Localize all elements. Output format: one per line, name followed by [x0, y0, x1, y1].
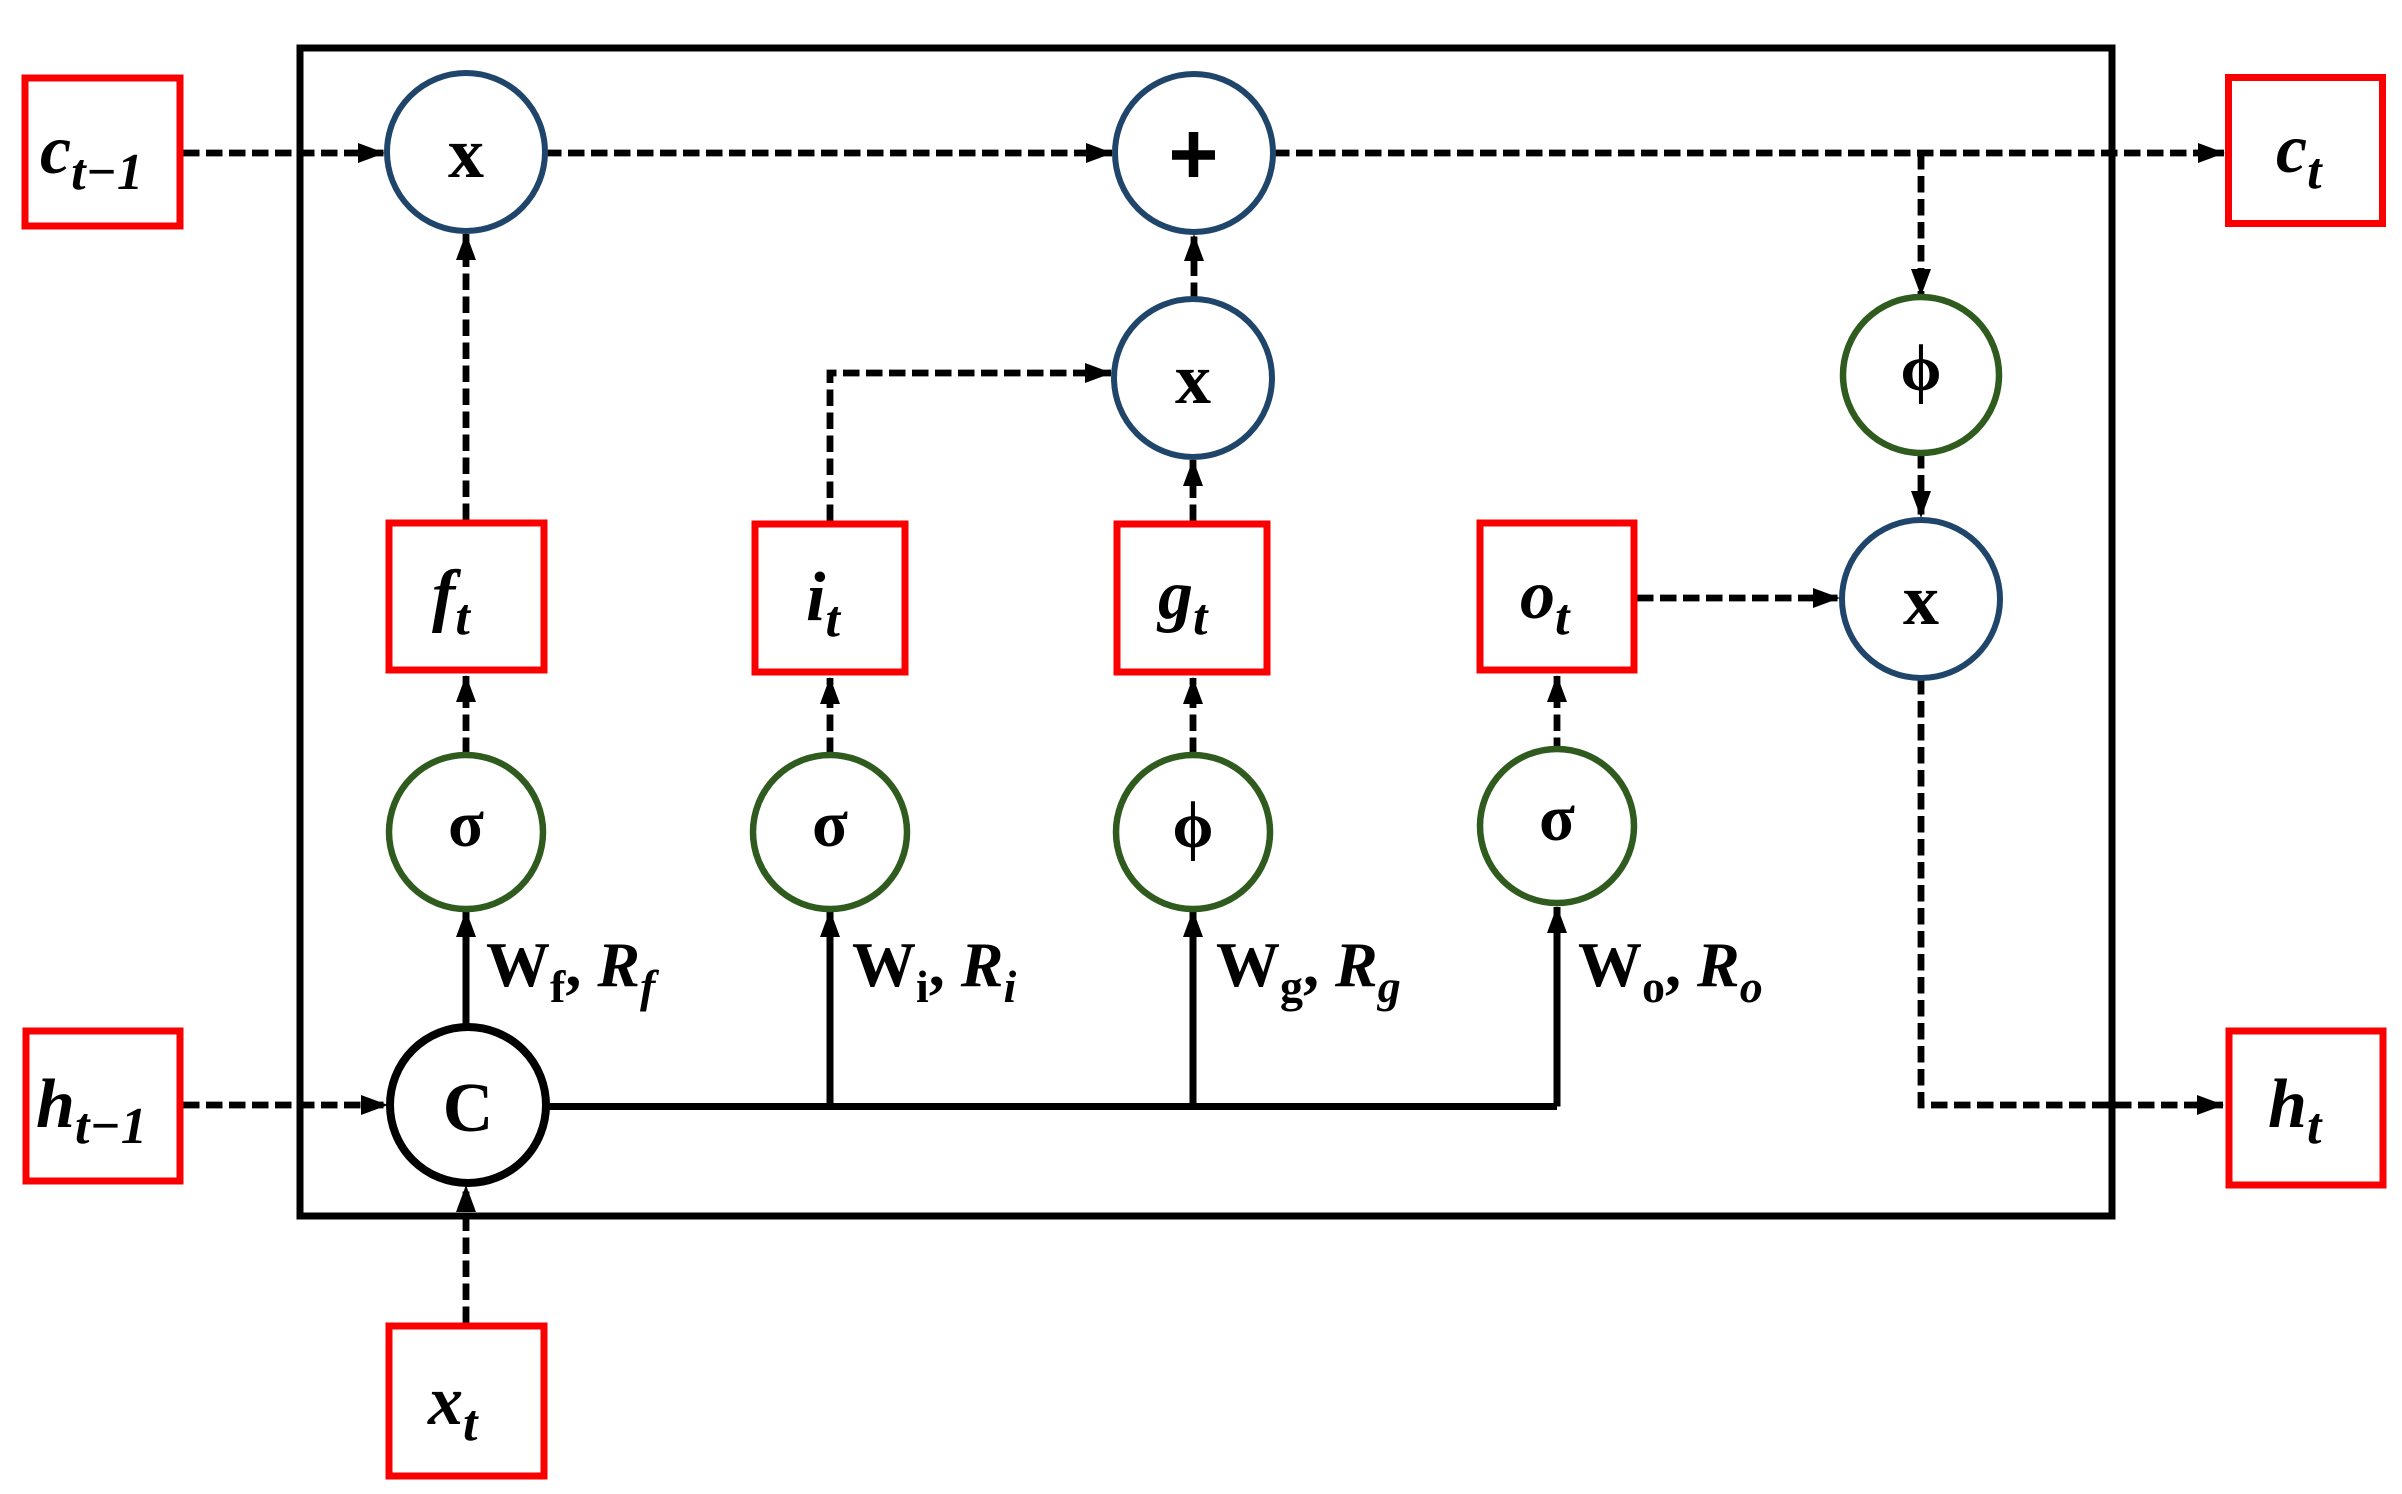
svg-text:Wg, Rg: Wg, Rg [1216, 929, 1401, 1012]
activation sigma2 [753, 755, 907, 909]
svg-text:Wo, Ro: Wo, Ro [1578, 929, 1763, 1012]
svg-text:x: x [448, 113, 484, 193]
wire bus up to phi mid (solid) [1190, 911, 1197, 1107]
node g_t [1117, 524, 1267, 672]
svg-text:σ: σ [812, 788, 848, 861]
op multiply X3 [1842, 520, 2000, 678]
activation phi mid [1116, 755, 1270, 909]
svg-text:x: x [1903, 560, 1939, 640]
op multiply X2 [1114, 299, 1272, 457]
svg-text:σ: σ [448, 788, 484, 861]
wire f_t to X1 (dashed) [463, 234, 470, 520]
node x_t [389, 1326, 544, 1476]
wire g_t to X2 (dashed) [1190, 460, 1197, 521]
wire bus up to sigma4 (solid) [1554, 907, 1561, 1107]
activation sigma1 [389, 755, 543, 909]
wire o_t to X3 (dashed) [1637, 595, 1839, 602]
wire X3 down and right to h_t (dashed) [1921, 678, 2223, 1105]
wire X1 to plus (dashed) [545, 150, 1112, 157]
svg-text:Wi, Ri: Wi, Ri [852, 929, 1016, 1012]
wire x_t to C (dashed) [463, 1186, 470, 1323]
node c_t [2229, 78, 2383, 224]
wire C up to sigma1 (solid) [463, 911, 470, 1027]
wire sigma2 to i_t (dashed) [827, 678, 834, 754]
wire plus to c_t (dashed) [1273, 150, 2224, 157]
wire h_{t-1} to C (dashed) [183, 1102, 387, 1109]
wire sigma4 to o_t (dashed) [1554, 676, 1561, 754]
op multiply X1 [387, 73, 545, 231]
activation sigma4 [1480, 749, 1634, 903]
node h_t [2229, 1031, 2383, 1185]
LSTM cell boundary box [300, 48, 2112, 1216]
node o_t [1480, 523, 1634, 670]
concat node C [390, 1027, 546, 1183]
activation phi right [1843, 297, 1999, 453]
wire phi right to X3 (dashed) [1918, 452, 1925, 517]
svg-text:C: C [443, 1070, 494, 1147]
wire bus up to sigma2 (solid) [827, 911, 834, 1107]
svg-text:ϕ: ϕ [1172, 789, 1213, 862]
node i_t [755, 524, 905, 672]
node c_{t-1} [25, 78, 180, 226]
node f_t [389, 523, 544, 670]
wire sigma1 to f_t (dashed) [463, 676, 470, 754]
svg-text:Wf, Rf: Wf, Rf [486, 929, 660, 1012]
wire X2 to plus (dashed) [1191, 235, 1198, 299]
op add PLUS [1115, 74, 1273, 232]
svg-text:σ: σ [1539, 782, 1575, 855]
wire phi mid to g_t (dashed) [1190, 678, 1197, 754]
svg-text:ϕ: ϕ [1900, 332, 1941, 405]
wire c_{t-1} to X1 (dashed) [183, 150, 384, 157]
wire branch down to phi right (dashed) [1918, 153, 1925, 295]
wire C bus horizontal (solid) [546, 1103, 1557, 1110]
svg-text:x: x [1175, 339, 1211, 419]
node h_{t-1} [26, 1031, 180, 1181]
wire i_t elbow to X2 (dashed) [830, 373, 1111, 521]
